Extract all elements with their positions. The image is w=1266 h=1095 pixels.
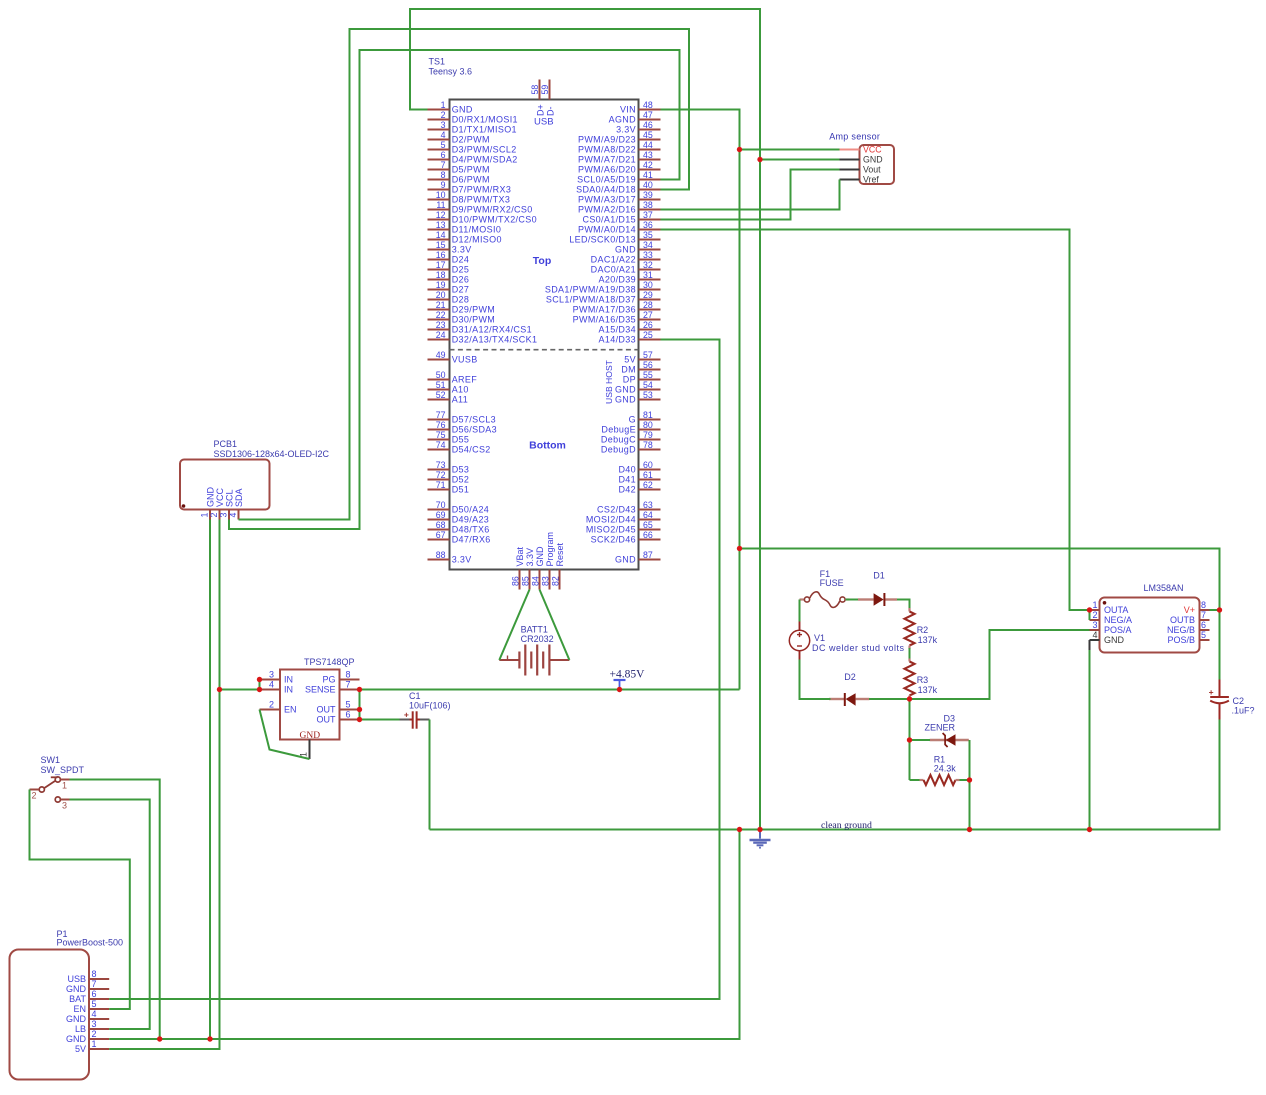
Amp sensor pin VCC bbox=[840, 149, 860, 151]
resistor R2 137k bbox=[905, 608, 938, 649]
svg-text:Top: Top bbox=[533, 255, 551, 267]
svg-text:USB: USB bbox=[534, 117, 554, 128]
svg-text:3: 3 bbox=[1092, 620, 1097, 630]
svg-text:D49/A23: D49/A23 bbox=[452, 515, 489, 525]
svg-text:PWM/A7/D21: PWM/A7/D21 bbox=[578, 155, 636, 165]
svg-text:53: 53 bbox=[643, 390, 653, 400]
TS1 pin 52 A11 bbox=[428, 399, 450, 401]
svg-text:14: 14 bbox=[436, 230, 446, 240]
svg-text:4: 4 bbox=[269, 680, 274, 690]
svg-text:PWM/A17/D36: PWM/A17/D36 bbox=[573, 305, 636, 315]
svg-text:D12/MISO0: D12/MISO0 bbox=[452, 235, 502, 245]
wire R1 node to clean ground bbox=[969, 780, 971, 830]
wire SW1 pin3 to P1 LB bbox=[70, 800, 150, 1030]
regulator U1 TPS7148QP bbox=[260, 657, 360, 759]
svg-text:D54/CS2: D54/CS2 bbox=[452, 445, 491, 455]
TS1 pin 80 DebugE bbox=[639, 429, 661, 431]
capacitor C2 .1uF? bbox=[1209, 680, 1255, 720]
TS1 pin 2 D0/RX1/MOSI1 bbox=[428, 119, 450, 121]
TS1 pin 40 SDA0/A4/D18 bbox=[639, 189, 661, 191]
svg-text:51: 51 bbox=[436, 380, 446, 390]
svg-text:A20/D39: A20/D39 bbox=[599, 275, 636, 285]
svg-text:C1: C1 bbox=[409, 691, 421, 701]
svg-text:5: 5 bbox=[441, 140, 446, 150]
svg-text:GND: GND bbox=[300, 731, 321, 741]
svg-text:D42: D42 bbox=[618, 485, 636, 495]
svg-text:CS2/D43: CS2/D43 bbox=[597, 505, 636, 515]
svg-text:62: 62 bbox=[643, 480, 653, 490]
TS1 pin 74 D54/CS2 bbox=[428, 449, 450, 451]
wire GND from TS1 pin1 over top to Amp sensor column bbox=[410, 9, 760, 160]
svg-text:8: 8 bbox=[1201, 600, 1206, 610]
svg-text:LB: LB bbox=[75, 1024, 86, 1034]
TS1 pin 48 VIN bbox=[639, 109, 661, 111]
wire GND branch to Amp sensor GND bbox=[760, 159, 840, 161]
wire clean ground down to P1 GND bbox=[109, 830, 739, 1040]
wire SDA from TS1 pin40 to PCB1 SDA bbox=[239, 29, 690, 520]
svg-text:63: 63 bbox=[643, 500, 653, 510]
wire V1 bottom to D2 bbox=[800, 660, 831, 700]
svg-text:26: 26 bbox=[643, 320, 653, 330]
svg-text:GND: GND bbox=[615, 395, 636, 405]
svg-text:D48/TX6: D48/TX6 bbox=[452, 525, 490, 535]
svg-text:4: 4 bbox=[1092, 630, 1097, 640]
TS1 pin 81 G bbox=[639, 419, 661, 421]
TS1 pin 43 PWM/A7/D21 bbox=[639, 159, 661, 161]
wire D1 to R2 bbox=[897, 600, 910, 609]
P1 pin 4 GND bbox=[89, 1018, 109, 1020]
TS1 pin 31 A20/D39 bbox=[639, 279, 661, 281]
svg-text:4: 4 bbox=[92, 1009, 97, 1019]
TS1 pin 69 D49/A23 bbox=[428, 519, 450, 521]
TS1 pin 11 D9/PWM/RX2/CS0 bbox=[428, 209, 450, 211]
svg-text:EN: EN bbox=[284, 705, 297, 715]
svg-text:DebugE: DebugE bbox=[601, 425, 636, 435]
svg-text:46: 46 bbox=[643, 120, 653, 130]
TS1 pin 24 D32/A13/TX4/SCK1 bbox=[428, 339, 450, 341]
TS1 pin 33 DAC1/A22 bbox=[639, 259, 661, 261]
TS1 pin 39 PWM/A3/D17 bbox=[639, 199, 661, 201]
svg-text:17: 17 bbox=[436, 260, 446, 270]
svg-text:49: 49 bbox=[436, 350, 446, 360]
TPS7148QP pin 3 IN bbox=[260, 679, 281, 681]
svg-text:AREF: AREF bbox=[452, 375, 478, 385]
svg-text:D53: D53 bbox=[452, 465, 470, 475]
TS1 pin 75 D55 bbox=[428, 439, 450, 441]
P1 pin 5 EN bbox=[89, 1008, 109, 1010]
TS1 pin 28 PWM/A17/D36 bbox=[639, 309, 661, 311]
svg-text:GND: GND bbox=[615, 385, 636, 395]
svg-text:1: 1 bbox=[1092, 600, 1097, 610]
svg-text:SCL0/A5/D19: SCL0/A5/D19 bbox=[577, 175, 636, 185]
svg-text:61: 61 bbox=[643, 470, 653, 480]
svg-text:PWM/A16/D35: PWM/A16/D35 bbox=[573, 315, 636, 325]
SW1 pin 3 bbox=[60, 799, 69, 801]
TS1 pin 30 SDA1/PWM/A19/D38 bbox=[639, 289, 661, 291]
TS1 pin 45 PWM/A9/D23 bbox=[639, 139, 661, 141]
svg-text:GND: GND bbox=[615, 245, 636, 255]
TS1 pin 22 D30/PWM bbox=[428, 319, 450, 321]
svg-text:D5/PWM: D5/PWM bbox=[452, 165, 490, 175]
svg-text:GND: GND bbox=[66, 1014, 87, 1024]
svg-text:+: + bbox=[1209, 687, 1214, 697]
svg-text:D28: D28 bbox=[452, 295, 470, 305]
TS1 pin 8 D6/PWM bbox=[428, 179, 450, 181]
TS1 pin 61 D41 bbox=[639, 479, 661, 481]
svg-text:3.3V: 3.3V bbox=[525, 548, 535, 567]
svg-text:86: 86 bbox=[511, 576, 521, 586]
TS1 pin 64 MOSI2/D44 bbox=[639, 519, 661, 521]
svg-text:D25: D25 bbox=[452, 265, 470, 275]
wire BATT1 negative to TS1 pin84 bbox=[540, 590, 570, 661]
svg-text:2: 2 bbox=[1092, 610, 1097, 620]
svg-text:D55: D55 bbox=[452, 435, 470, 445]
TS1 pin 73 D53 bbox=[428, 469, 450, 471]
power module P1 PowerBoost-500 bbox=[10, 929, 124, 1080]
svg-text:56: 56 bbox=[643, 360, 653, 370]
TS1 pin 1 GND bbox=[428, 109, 450, 111]
svg-text:D2/PWM: D2/PWM bbox=[452, 135, 490, 145]
svg-text:2: 2 bbox=[441, 110, 446, 120]
svg-text:80: 80 bbox=[643, 420, 653, 430]
svg-text:VIN: VIN bbox=[620, 105, 636, 115]
svg-text:21: 21 bbox=[436, 300, 446, 310]
svg-text:V+: V+ bbox=[1184, 605, 1195, 615]
svg-text:D50/A24: D50/A24 bbox=[452, 505, 489, 515]
TS1 pin 14 D12/MISO0 bbox=[428, 239, 450, 241]
svg-text:D9/PWM/RX2/CS0: D9/PWM/RX2/CS0 bbox=[452, 205, 533, 215]
svg-text:81: 81 bbox=[643, 410, 653, 420]
TS1 pin 3 D1/TX1/MISO1 bbox=[428, 129, 450, 131]
TS1 pin 86 VBat bbox=[519, 570, 521, 590]
TS1 pin 70 D50/A24 bbox=[428, 509, 450, 511]
battery BATT1 CR2032 bbox=[499, 625, 569, 676]
svg-text:3: 3 bbox=[219, 513, 229, 518]
wire LM358 GND to clean ground bbox=[1089, 650, 1091, 830]
TS1 pin 79 DebugC bbox=[639, 439, 661, 441]
LM358AN pin 5 POS/B bbox=[1200, 639, 1210, 641]
svg-text:SW_SPDT: SW_SPDT bbox=[41, 765, 85, 775]
svg-text:D1/TX1/MISO1: D1/TX1/MISO1 bbox=[452, 125, 517, 135]
TS1 pin 58 D+ bbox=[539, 80, 541, 100]
TS1 pin 59 D- bbox=[549, 80, 551, 100]
zener diode D3 ZENER bbox=[924, 713, 968, 747]
TS1 pin 25 A14/D33 bbox=[639, 339, 661, 341]
svg-text:44: 44 bbox=[643, 140, 653, 150]
TS1 pin 77 D57/SCL3 bbox=[428, 419, 450, 421]
wire POS/A to divider junction bbox=[910, 630, 1090, 699]
wire C1 to clean ground bbox=[429, 720, 431, 830]
svg-text:SDA: SDA bbox=[234, 488, 244, 507]
svg-text:A14/D33: A14/D33 bbox=[599, 335, 636, 345]
wire GND column down to clean ground bbox=[759, 160, 761, 830]
TS1 pin 44 PWM/A8/D22 bbox=[639, 149, 661, 151]
svg-text:55: 55 bbox=[643, 370, 653, 380]
svg-text:32: 32 bbox=[643, 260, 653, 270]
svg-text:31: 31 bbox=[643, 270, 653, 280]
TS1 pin 82 Reset bbox=[559, 570, 561, 590]
svg-text:SSD1306-128x64-OLED-I2C: SSD1306-128x64-OLED-I2C bbox=[214, 449, 330, 459]
svg-text:137k: 137k bbox=[918, 635, 938, 645]
wire BATT1 positive to TS1 pin85 bbox=[499, 590, 529, 661]
TS1 pin 4 D2/PWM bbox=[428, 139, 450, 141]
wire 5V rail to TPS IN bbox=[220, 689, 260, 691]
TS1 pin 55 DP bbox=[639, 379, 661, 381]
svg-text:42: 42 bbox=[643, 160, 653, 170]
svg-text:GND: GND bbox=[205, 487, 215, 508]
TS1 pin 41 SCL0/A5/D19 bbox=[639, 179, 661, 181]
wire +4.85V branch to Amp sensor VCC bbox=[740, 149, 840, 151]
svg-text:45: 45 bbox=[643, 130, 653, 140]
svg-text:19: 19 bbox=[436, 280, 446, 290]
svg-text:ZENER: ZENER bbox=[924, 722, 955, 732]
TS1 pin 49 VUSB bbox=[428, 359, 450, 361]
wire junction to D3 bbox=[910, 739, 931, 741]
svg-text:23: 23 bbox=[436, 320, 446, 330]
svg-text:POS/A: POS/A bbox=[1104, 625, 1132, 635]
svg-text:79: 79 bbox=[643, 430, 653, 440]
TS1 pin 37 CS0/A1/D15 bbox=[639, 219, 661, 221]
svg-text:DebugD: DebugD bbox=[601, 445, 636, 455]
svg-text:4: 4 bbox=[228, 513, 238, 518]
TS1 pin 42 PWM/A6/D20 bbox=[639, 169, 661, 171]
svg-text:137k: 137k bbox=[918, 685, 938, 695]
junction dots bbox=[617, 687, 622, 692]
svg-text:71: 71 bbox=[436, 480, 446, 490]
TS1 pin 60 D40 bbox=[639, 469, 661, 471]
OLED display PCB1 SSD1306-128x64-OLED-I2C bbox=[180, 439, 330, 520]
svg-text:52: 52 bbox=[436, 390, 446, 400]
TS1 pin 87 GND bbox=[639, 559, 661, 561]
TS1 pin 29 SCL1/PWM/A18/D37 bbox=[639, 299, 661, 301]
svg-text:Bottom: Bottom bbox=[529, 440, 566, 452]
TS1 pin 34 GND bbox=[639, 249, 661, 251]
svg-text:+4.85V: +4.85V bbox=[610, 669, 646, 681]
TS1 pin 17 D25 bbox=[428, 269, 450, 271]
wire OUTA from LM358 pin1 to TS1 pin36 bbox=[661, 230, 1090, 611]
svg-text:10: 10 bbox=[436, 190, 446, 200]
wire TPS EN to GND pin bbox=[260, 710, 310, 760]
svg-text:3: 3 bbox=[92, 1019, 97, 1029]
svg-text:76: 76 bbox=[436, 420, 446, 430]
svg-text:D56/SDA3: D56/SDA3 bbox=[452, 425, 497, 435]
svg-text:D24: D24 bbox=[452, 255, 470, 265]
svg-text:35: 35 bbox=[643, 230, 653, 240]
LM358AN pin 1 OUTA bbox=[1090, 609, 1100, 611]
Amp sensor pin Vout bbox=[840, 169, 860, 171]
svg-text:18: 18 bbox=[436, 270, 446, 280]
svg-text:C2: C2 bbox=[1233, 696, 1245, 706]
capacitor C1 10uF(106) bbox=[400, 691, 451, 729]
svg-text:D41: D41 bbox=[618, 475, 636, 485]
wire clean ground rail bbox=[430, 720, 1220, 830]
svg-text:29: 29 bbox=[643, 290, 653, 300]
svg-text:67: 67 bbox=[436, 530, 446, 540]
svg-text:27: 27 bbox=[643, 310, 653, 320]
svg-text:D8/PWM/TX3: D8/PWM/TX3 bbox=[452, 195, 511, 205]
wire D2 to junction bbox=[869, 698, 910, 700]
svg-text:50: 50 bbox=[436, 370, 446, 380]
svg-text:28: 28 bbox=[643, 300, 653, 310]
svg-text:3: 3 bbox=[62, 801, 67, 811]
svg-text:D6/PWM: D6/PWM bbox=[452, 175, 490, 185]
svg-text:GND: GND bbox=[452, 105, 473, 115]
svg-text:D3/PWM/SCL2: D3/PWM/SCL2 bbox=[452, 145, 517, 155]
svg-text:47: 47 bbox=[643, 110, 653, 120]
TS1 pin 83 Program bbox=[549, 570, 551, 590]
svg-text:R3: R3 bbox=[917, 675, 929, 685]
svg-text:SCL: SCL bbox=[224, 489, 234, 507]
svg-text:D29/PWM: D29/PWM bbox=[452, 305, 495, 315]
svg-text:DP: DP bbox=[623, 375, 636, 385]
svg-text:8: 8 bbox=[441, 170, 446, 180]
TS1 pin 18 D26 bbox=[428, 279, 450, 281]
svg-text:SENSE: SENSE bbox=[305, 685, 336, 695]
TS1 pin 9 D7/PWM/RX3 bbox=[428, 189, 450, 191]
svg-text:13: 13 bbox=[436, 220, 446, 230]
svg-text:88: 88 bbox=[436, 550, 446, 560]
svg-text:3.3V: 3.3V bbox=[452, 245, 472, 255]
wire V1 top to fuse bbox=[799, 600, 801, 622]
svg-text:D2: D2 bbox=[844, 672, 856, 682]
P1 pin 6 BAT bbox=[89, 998, 109, 1000]
wire TPS SENSE-OUT tie bbox=[359, 690, 361, 720]
svg-text:41: 41 bbox=[643, 170, 653, 180]
TS1 pin 15 3.3V bbox=[428, 249, 450, 251]
wire OUTA to NEG/A feedback bbox=[1089, 610, 1091, 620]
svg-text:OUT: OUT bbox=[317, 705, 337, 715]
svg-text:6: 6 bbox=[1201, 620, 1206, 630]
LM358AN pin 4 GND bbox=[1090, 639, 1100, 641]
wire BAT from TS1 pin25 to P1 BAT bbox=[109, 340, 719, 1000]
svg-text:NEG/A: NEG/A bbox=[1104, 615, 1132, 625]
TS1 pin 50 AREF bbox=[428, 379, 450, 381]
svg-text:VCC: VCC bbox=[863, 145, 882, 155]
svg-text:A15/D34: A15/D34 bbox=[599, 325, 636, 335]
svg-text:DAC1/A22: DAC1/A22 bbox=[591, 255, 636, 265]
svg-text:SW1: SW1 bbox=[41, 755, 61, 765]
svg-text:6: 6 bbox=[441, 150, 446, 160]
svg-text:84: 84 bbox=[531, 576, 541, 586]
LM358AN pin 3 POS/A bbox=[1090, 629, 1100, 631]
svg-text:VCC: VCC bbox=[215, 487, 225, 507]
svg-text:16: 16 bbox=[436, 250, 446, 260]
P1 pin 3 LB bbox=[89, 1028, 109, 1030]
svg-text:12: 12 bbox=[436, 210, 446, 220]
svg-text:Program: Program bbox=[545, 532, 555, 567]
svg-text:FUSE: FUSE bbox=[820, 578, 844, 588]
svg-text:VBat: VBat bbox=[515, 546, 525, 566]
TS1 pin 26 A15/D34 bbox=[639, 329, 661, 331]
TS1 pin 76 D56/SDA3 bbox=[428, 429, 450, 431]
TS1 pin 63 CS2/D43 bbox=[639, 509, 661, 511]
svg-text:A10: A10 bbox=[452, 385, 469, 395]
svg-text:3.3V: 3.3V bbox=[452, 555, 472, 565]
svg-text:LM358AN: LM358AN bbox=[1144, 583, 1184, 593]
svg-text:D52: D52 bbox=[452, 475, 470, 485]
svg-text:5: 5 bbox=[92, 999, 97, 1009]
wire V+ tie LM358 pin8 bbox=[1210, 609, 1220, 611]
svg-text:43: 43 bbox=[643, 150, 653, 160]
svg-text:Amp sensor: Amp sensor bbox=[829, 131, 880, 141]
svg-text:65: 65 bbox=[643, 520, 653, 530]
svg-text:D7/PWM/RX3: D7/PWM/RX3 bbox=[452, 185, 512, 195]
LM358AN pin 7 OUTB bbox=[1200, 619, 1210, 621]
TS1 pin 72 D52 bbox=[428, 479, 450, 481]
svg-text:82: 82 bbox=[551, 576, 561, 586]
svg-text:AGND: AGND bbox=[609, 115, 637, 125]
svg-text:3: 3 bbox=[269, 670, 274, 680]
svg-text:48: 48 bbox=[643, 100, 653, 110]
svg-text:PWM/A6/D20: PWM/A6/D20 bbox=[578, 165, 636, 175]
TS1 pin 65 MISO2/D45 bbox=[639, 529, 661, 531]
TS1 pin 13 D11/MOSI0 bbox=[428, 229, 450, 231]
svg-text:15: 15 bbox=[436, 240, 446, 250]
svg-text:D0/RX1/MOSI1: D0/RX1/MOSI1 bbox=[452, 115, 518, 125]
svg-text:9: 9 bbox=[441, 180, 446, 190]
Amp sensor pin Vref bbox=[840, 179, 860, 181]
wire R2 to R3 bbox=[909, 648, 911, 659]
wire TPS OUT to C1 bbox=[360, 719, 400, 721]
svg-text:87: 87 bbox=[643, 550, 653, 560]
svg-text:22: 22 bbox=[436, 310, 446, 320]
diode D2 bbox=[829, 672, 869, 706]
TS1 pin 67 D47/RX6 bbox=[428, 539, 450, 541]
svg-text:38: 38 bbox=[643, 200, 653, 210]
svg-text:TS1: TS1 bbox=[429, 57, 446, 67]
svg-text:Vout: Vout bbox=[863, 165, 881, 175]
svg-text:5: 5 bbox=[1201, 630, 1206, 640]
power symbol +4.85V bbox=[610, 669, 646, 690]
svg-text:1: 1 bbox=[92, 1039, 97, 1049]
svg-text:24: 24 bbox=[436, 330, 446, 340]
svg-text:30: 30 bbox=[643, 280, 653, 290]
svg-text:IN: IN bbox=[284, 675, 293, 685]
svg-text:D11/MOSI0: D11/MOSI0 bbox=[452, 225, 502, 235]
svg-text:D40: D40 bbox=[618, 465, 636, 475]
P1 pin 7 GND bbox=[89, 988, 109, 990]
svg-text:39: 39 bbox=[643, 190, 653, 200]
svg-text:Teensy 3.6: Teensy 3.6 bbox=[429, 67, 473, 77]
svg-text:66: 66 bbox=[643, 530, 653, 540]
svg-text:D1: D1 bbox=[873, 571, 885, 581]
svg-text:2: 2 bbox=[209, 513, 219, 518]
SW1 pin 2 bbox=[30, 789, 40, 791]
LM358AN pin 6 NEG/B bbox=[1200, 629, 1210, 631]
svg-text:83: 83 bbox=[541, 576, 551, 586]
TPS7148QP pin 5 OUT bbox=[340, 709, 360, 711]
svg-text:GND: GND bbox=[863, 155, 883, 165]
TS1 pin 20 D28 bbox=[428, 299, 450, 301]
svg-text:PCB1: PCB1 bbox=[214, 439, 238, 449]
TS1 pin 46 3.3V bbox=[639, 129, 661, 131]
svg-text:54: 54 bbox=[643, 380, 653, 390]
svg-text:USB: USB bbox=[67, 974, 86, 984]
svg-text:D+: D+ bbox=[536, 104, 546, 116]
TS1 pin 85 3.3V bbox=[529, 570, 531, 590]
svg-text:4: 4 bbox=[441, 130, 446, 140]
svg-text:3.3V: 3.3V bbox=[616, 125, 636, 135]
svg-text:CR2032: CR2032 bbox=[521, 634, 554, 644]
svg-text:+: + bbox=[404, 710, 409, 720]
svg-text:POS/B: POS/B bbox=[1167, 635, 1195, 645]
wire Vout from Amp sensor to TS1 pin37 bbox=[661, 170, 840, 220]
TPS7148QP pin 8 PG bbox=[340, 679, 360, 681]
svg-text:DebugC: DebugC bbox=[601, 435, 636, 445]
wire +4.85V branch to V+ rail bbox=[740, 549, 1220, 680]
svg-text:MOSI2/D44: MOSI2/D44 bbox=[586, 515, 636, 525]
svg-text:78: 78 bbox=[643, 440, 653, 450]
